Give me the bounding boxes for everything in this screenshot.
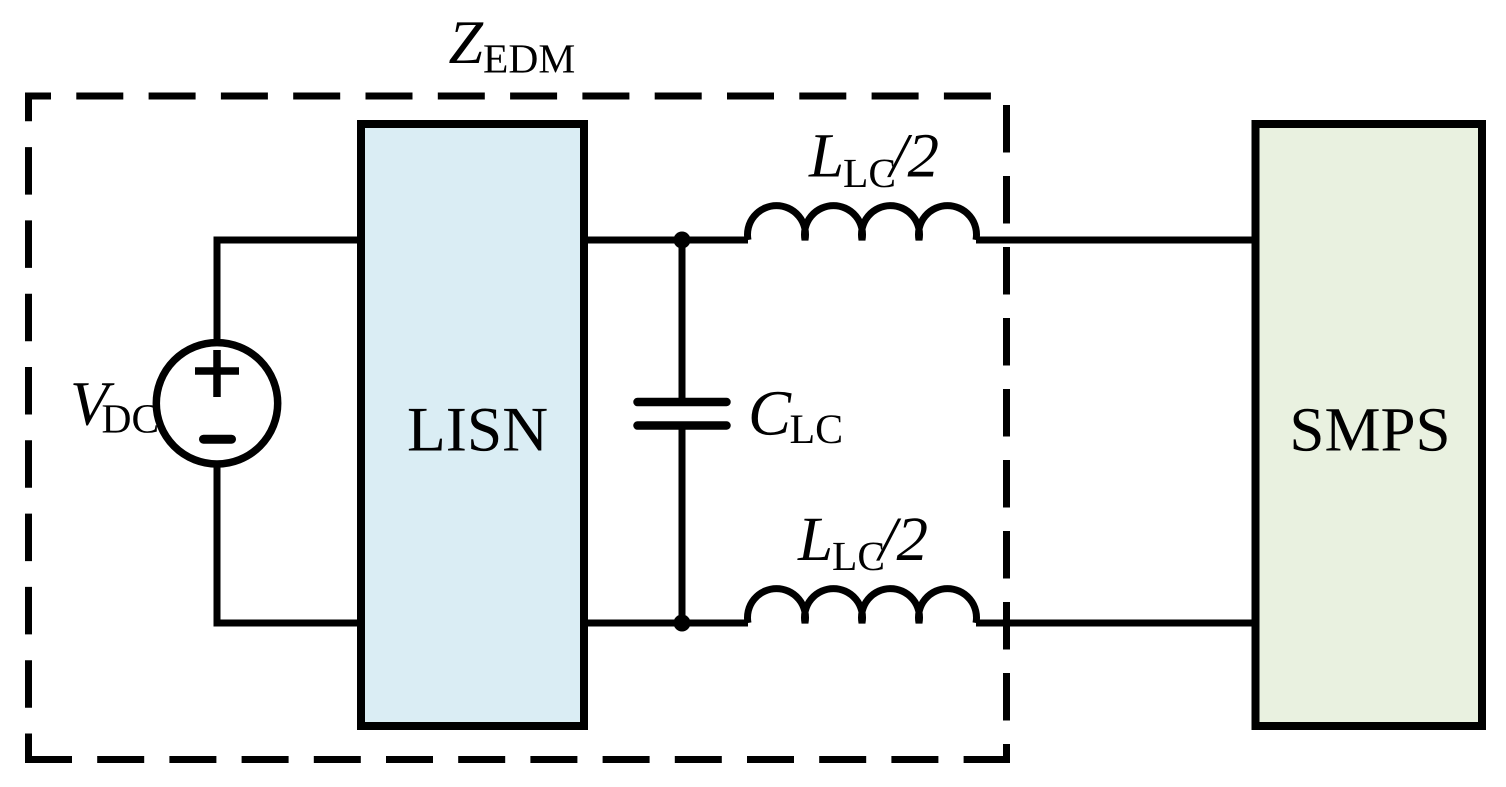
svg-text:EDM: EDM: [483, 35, 575, 81]
capacitor C_LC top lead wire: [679, 240, 686, 399]
dashed boundary box of Z_EDM network: [25, 96, 1010, 760]
svg-text:/2: /2: [876, 504, 928, 574]
wire source bottom lead: [214, 462, 221, 627]
wire bottom: LISN to inductor: [584, 620, 748, 627]
minus sign of V_DC: [204, 435, 232, 444]
capacitor C_LC plates: [638, 402, 727, 426]
wire bottom-left: source to LISN: [217, 620, 361, 627]
node junction bottom: [674, 615, 691, 632]
inductor L_LC/2 bottom: [748, 589, 977, 623]
wire bottom: inductor to SMPS: [976, 620, 1256, 627]
SMPS block: [1256, 124, 1483, 726]
svg-text:LISN: LISN: [407, 393, 548, 464]
svg-text:L: L: [808, 121, 844, 191]
wire top-left: source top to LISN: [217, 237, 361, 244]
svg-text:LC: LC: [790, 407, 844, 453]
svg-text:LC: LC: [843, 150, 896, 196]
label L_LC/2 bottom: [797, 504, 928, 579]
wire source top lead: [214, 237, 221, 346]
svg-text:L: L: [797, 504, 833, 574]
inductor L_LC/2 top: [748, 206, 977, 240]
label V_DC: [70, 369, 159, 442]
node junction top: [674, 232, 691, 249]
svg-text:SMPS: SMPS: [1289, 394, 1450, 464]
svg-text:/2: /2: [887, 121, 939, 191]
svg-text:LC: LC: [832, 533, 885, 579]
svg-text:Z: Z: [449, 9, 484, 77]
label C_LC: [748, 378, 843, 454]
wire top: inductor to SMPS: [976, 237, 1256, 244]
capacitor C_LC bottom lead wire: [679, 429, 686, 623]
plus sign of V_DC: [195, 350, 239, 397]
voltage source V_DC circle: [156, 343, 277, 464]
wire top: LISN to inductor: [584, 237, 748, 244]
label Z_EDM: [449, 9, 576, 81]
label L_LC/2 top: [808, 121, 939, 197]
svg-text:DC: DC: [102, 395, 160, 441]
svg-text:C: C: [748, 378, 792, 449]
LISN block: [361, 124, 584, 726]
